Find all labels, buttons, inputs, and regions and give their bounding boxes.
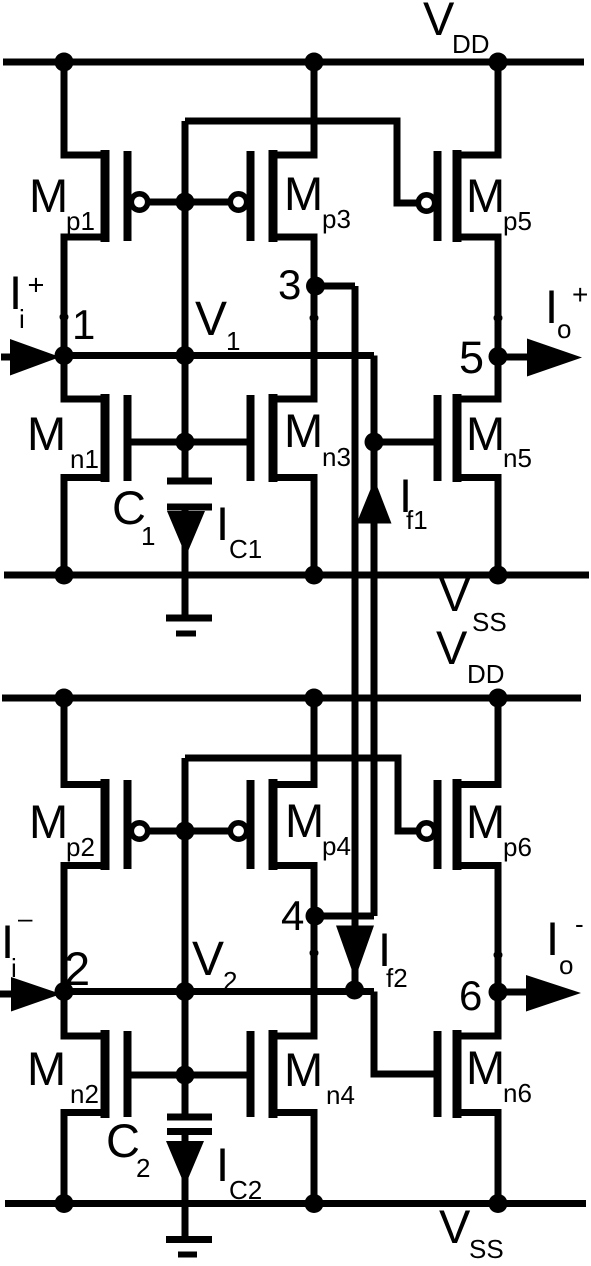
wire node row 2 xyxy=(59,988,374,995)
svg-text:V: V xyxy=(195,293,227,346)
transistor Mp6 xyxy=(418,698,498,992)
junction VDD-Mp5 xyxy=(489,53,508,72)
node V2 junction on row xyxy=(176,982,195,1001)
current arrow If1 (up) xyxy=(357,480,392,524)
wire gate bus Mp1-Mp3 xyxy=(147,199,231,206)
svg-text:C1: C1 xyxy=(229,534,262,564)
svg-text:p2: p2 xyxy=(66,832,95,862)
svg-text:n6: n6 xyxy=(503,1078,532,1108)
junction VSS2-Mn4 xyxy=(305,1194,324,1213)
svg-text:M: M xyxy=(284,404,323,457)
junction If1-Mn5 gate xyxy=(365,433,384,452)
svg-text:1: 1 xyxy=(72,301,95,348)
svg-text:-: - xyxy=(575,909,584,939)
svg-text:5: 5 xyxy=(459,332,484,383)
junction If2 on row 2 xyxy=(345,981,364,1000)
label Mn4 xyxy=(284,1043,355,1110)
wire Mn6 gate (row 2 corner down) xyxy=(374,992,438,1075)
svg-text:f1: f1 xyxy=(406,505,428,535)
label Mp4 xyxy=(285,794,351,861)
svg-text:M: M xyxy=(27,1042,66,1095)
svg-text:1: 1 xyxy=(226,326,240,356)
svg-text:p6: p6 xyxy=(503,832,532,862)
current source IC2 (down arrow) xyxy=(166,1141,204,1186)
svg-text:2: 2 xyxy=(64,942,90,995)
current arrow If2 (down) xyxy=(336,926,374,980)
input arrow Ii+ top xyxy=(1,339,60,376)
node 3 xyxy=(278,261,325,308)
node 5 xyxy=(459,332,508,383)
power rail VDD top xyxy=(3,59,584,66)
junction VDD2-Mp4 xyxy=(305,689,324,708)
current source IC1 (down arrow) xyxy=(167,511,205,556)
svg-text:M: M xyxy=(284,167,323,220)
junction VSS2-Mn6 xyxy=(489,1194,508,1213)
label Ii+ xyxy=(9,266,44,334)
wire If1 vertical (row 1 down to node 4 link) xyxy=(371,356,378,917)
junction VSS-Mn5 xyxy=(489,566,508,585)
label VDD bottom xyxy=(436,621,505,689)
label Mp1 xyxy=(29,169,95,236)
svg-text:V: V xyxy=(436,621,468,674)
power rail VSS top xyxy=(4,572,589,579)
svg-text:n2: n2 xyxy=(70,1079,99,1109)
svg-text:V: V xyxy=(439,568,471,621)
label Mn2 xyxy=(27,1042,99,1109)
label V1 xyxy=(195,293,240,356)
svg-text:I: I xyxy=(216,1138,229,1191)
svg-text:+: + xyxy=(572,279,588,310)
power rail VDD bottom xyxy=(2,695,581,702)
node 2 xyxy=(55,942,91,1001)
wire V2 vertical xyxy=(182,758,189,1117)
label Ii- xyxy=(1,903,33,983)
svg-text:f2: f2 xyxy=(386,963,408,993)
svg-text:I: I xyxy=(546,912,559,965)
transistor Mp5 xyxy=(418,62,498,356)
capacitor C1 xyxy=(167,481,212,507)
label Io+ xyxy=(545,279,588,344)
node 6 xyxy=(459,972,508,1019)
wire gate row Mn1-Mn3 xyxy=(128,439,251,446)
svg-text:p5: p5 xyxy=(503,206,532,236)
label VSS top xyxy=(439,568,507,637)
svg-text:V: V xyxy=(439,1200,471,1253)
power rail VSS bottom xyxy=(5,1200,586,1207)
junction VSS-Mn3 xyxy=(305,566,324,585)
transistor Mn2 xyxy=(64,991,128,1203)
wire node row 1 xyxy=(58,352,374,359)
label V2 xyxy=(192,933,237,996)
svg-text:i: i xyxy=(19,304,25,334)
label Mn6 xyxy=(466,1041,532,1108)
wire gate loop top (V1 to Mp5 gate) xyxy=(185,121,416,203)
junction VDD2-Mp6 xyxy=(489,689,508,708)
wire gate row Mn2-Mn4 xyxy=(128,1072,251,1079)
svg-text:M: M xyxy=(27,407,66,460)
svg-text:o: o xyxy=(559,950,573,980)
svg-text:p1: p1 xyxy=(66,206,95,236)
label Mp2 xyxy=(29,795,95,862)
svg-text:n3: n3 xyxy=(322,442,351,472)
input arrow Ii- bottom xyxy=(0,977,61,1012)
svg-text:–: – xyxy=(18,903,33,933)
wire gate bus Mp2-Mp4 xyxy=(147,828,231,835)
label C2 xyxy=(106,1114,150,1183)
svg-text:n4: n4 xyxy=(326,1080,355,1110)
label Mp6 xyxy=(466,795,532,862)
transistor Mn3 xyxy=(251,286,315,575)
svg-text:1: 1 xyxy=(141,521,155,551)
junction VSS-Mn1 xyxy=(55,566,74,585)
output arrow Io- bottom xyxy=(498,975,581,1012)
label If2 xyxy=(378,923,408,993)
wire C2 to ground xyxy=(182,1134,189,1239)
label IC1 xyxy=(216,497,262,564)
svg-text:M: M xyxy=(284,1043,323,1096)
wire If2 vertical (node 3 down) xyxy=(352,286,359,990)
node 1 xyxy=(55,301,96,365)
svg-text:3: 3 xyxy=(278,261,301,308)
output arrow Io+ top xyxy=(498,339,582,377)
svg-text:M: M xyxy=(466,407,505,460)
wire gate loop bottom (V2 to Mp6 gate) xyxy=(185,758,416,831)
svg-text:M: M xyxy=(466,795,505,848)
label VSS bottom xyxy=(439,1200,504,1264)
label If1 xyxy=(399,469,428,535)
svg-text:C: C xyxy=(106,1114,140,1167)
svg-text:2: 2 xyxy=(136,1153,150,1183)
wire node 3 to If2 line xyxy=(312,283,355,290)
svg-text:V: V xyxy=(423,0,455,45)
svg-text:DD: DD xyxy=(467,659,505,689)
ground symbol top xyxy=(166,618,212,634)
svg-text:DD: DD xyxy=(452,29,490,59)
svg-text:i: i xyxy=(11,953,17,983)
transistor Mp3 xyxy=(230,62,314,286)
junction VDD-Mp1 xyxy=(55,53,74,72)
svg-text:SS: SS xyxy=(469,1234,504,1264)
label Mp3 xyxy=(284,167,351,234)
node V1 junction on row xyxy=(176,346,195,365)
label IC2 xyxy=(216,1138,262,1205)
node 4 xyxy=(281,892,325,939)
svg-text:M: M xyxy=(29,169,68,222)
junction gate bus V1 xyxy=(176,193,195,212)
junction VDD-Mp3 xyxy=(305,53,324,72)
capacitor C2 xyxy=(167,1117,212,1132)
wire Mn5 gate xyxy=(374,439,438,446)
transistor Mn4 xyxy=(251,916,315,1203)
svg-text:M: M xyxy=(29,795,68,848)
label VDD top xyxy=(423,0,490,59)
svg-text:M: M xyxy=(466,169,505,222)
svg-text:n5: n5 xyxy=(503,443,532,473)
transistor Mn6 xyxy=(438,992,499,1203)
label Mp5 xyxy=(466,169,532,236)
wire node 4 to If1 line xyxy=(312,913,374,920)
transistor Mp1 xyxy=(64,62,148,355)
svg-text:M: M xyxy=(285,794,324,847)
wire joint nubs xyxy=(60,313,503,960)
transistor Mn1 xyxy=(64,355,128,575)
svg-text:I: I xyxy=(216,497,229,550)
svg-text:4: 4 xyxy=(281,892,304,939)
wire C1 to ground xyxy=(182,510,189,617)
svg-text:+: + xyxy=(28,270,45,302)
junction gate row V2 xyxy=(176,1066,195,1085)
wire V1 vertical xyxy=(182,121,189,481)
label Io- xyxy=(546,909,584,980)
svg-text:p3: p3 xyxy=(322,204,351,234)
ground symbol bottom xyxy=(166,1240,212,1255)
junction VSS2-Mn2 xyxy=(55,1194,74,1213)
label Mn5 xyxy=(466,407,532,473)
junction gate row V1 xyxy=(176,433,195,452)
transistor Mp2 xyxy=(64,698,148,992)
svg-text:6: 6 xyxy=(459,972,482,1019)
label Mn1 xyxy=(27,407,99,474)
transistor Mp4 xyxy=(230,698,314,916)
svg-text:M: M xyxy=(466,1041,505,1094)
label C1 xyxy=(112,481,155,551)
svg-text:p4: p4 xyxy=(322,831,351,861)
svg-text:o: o xyxy=(557,314,571,344)
svg-text:V: V xyxy=(192,933,224,986)
label Mn3 xyxy=(284,404,351,472)
svg-text:SS: SS xyxy=(472,607,507,637)
transistor Mn5 xyxy=(438,356,499,575)
junction VDD2-Mp2 xyxy=(55,689,74,708)
junction gate bus V2 xyxy=(176,822,195,841)
svg-text:n1: n1 xyxy=(70,444,99,474)
